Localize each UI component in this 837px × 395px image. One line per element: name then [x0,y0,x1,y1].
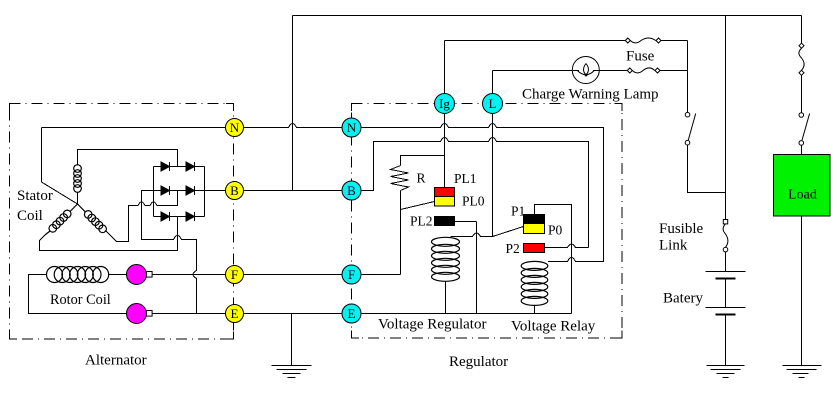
wire ignition switch column [687,41,689,113]
terminal L regulator [483,94,503,114]
svg-text:Coil: Coil [17,208,43,224]
terminal E regulator [342,304,361,323]
terminal E alternator [226,305,244,323]
fuse F1 [625,38,661,43]
wire Ig drop to PL1 [444,113,446,188]
svg-text:Stator: Stator [17,188,53,204]
svg-text:Batery: Batery [663,291,703,307]
wire rotor coil left return [29,275,127,314]
ground below load [783,366,822,378]
rotor coil winding [47,267,109,283]
wire L drop to relay armature [492,113,494,237]
svg-text:L: L [489,96,497,111]
wire VR coil top to relay contact arm with hop [451,227,524,237]
svg-text:Voltage Relay: Voltage Relay [511,319,596,335]
terminal N regulator [342,118,361,137]
svg-text:Rotor Coil: Rotor Coil [50,292,111,308]
wire battery feed riser [725,16,727,220]
wire switch to battery feed [688,145,726,193]
svg-text:R: R [417,171,426,186]
svg-text:F: F [231,267,238,282]
svg-text:P2: P2 [506,241,520,256]
wire stator phase B to bridge middle row with hops [106,191,178,242]
terminal B regulator [342,181,361,200]
diode D3 [161,186,170,195]
diode D5 [161,212,170,221]
contact P0 [524,224,545,234]
contact PL1 [435,188,455,197]
contact P1 [524,215,545,224]
svg-text:Link: Link [659,238,688,254]
wire relay coil bottom lead [534,306,536,314]
svg-text:PL2: PL2 [410,214,433,229]
wire load branch top [801,16,803,44]
terminal N alternator [226,119,244,137]
svg-text:P1: P1 [511,204,525,219]
wire VR coil bottom lead [445,281,447,314]
wire load switch to load box [801,146,803,155]
terminal F alternator [226,266,244,284]
regulator dash-dot enclosure [352,104,623,339]
wire fuse2 to switch column [660,70,688,72]
stator coil phase B winding (lower-right) [78,204,107,233]
svg-text:E: E [348,306,356,321]
brush F (slip ring) [127,265,153,285]
svg-text:Ig: Ig [439,96,450,111]
load branch fuse F3 [799,43,804,75]
wire P2 to B feed drop with hop [545,244,589,248]
wire regulator contact arm diagonal [401,202,435,210]
diode D4 [186,186,195,195]
wire F net from brush to armature [152,274,401,276]
svg-text:Fuse: Fuse [626,49,655,65]
wire B net from bridge to regulator feed [205,138,589,248]
wire L riser to lamp [493,71,573,95]
fuse F2 [627,68,660,73]
svg-text:Voltage Regulator: Voltage Regulator [378,317,486,333]
svg-text:Regulator: Regulator [449,354,508,370]
svg-text:F: F [348,267,355,282]
brush E (slip ring) [127,304,153,324]
load switch SW2 [799,113,810,146]
wire N net with hops [42,124,604,262]
alternator dash-dot enclosure [10,104,234,340]
diode D2 [186,162,195,171]
wire Ig riser to fuse [445,41,626,95]
svg-text:Alternator: Alternator [85,353,147,369]
wire P1 to E bus [535,205,572,314]
wire regulator armature to F [400,191,402,275]
wire negative bus from bridge to E wire with hops [142,191,197,314]
stator coil phase C winding (lower-left) [46,204,78,235]
wire stator phase A to bridge top row [78,150,178,167]
contact P2 [524,244,545,253]
contact PL2 [435,217,455,226]
svg-text:Load: Load [788,188,817,203]
wire stator phase C to bridge bottom row [40,217,178,251]
wire load branch fuse to switch [801,76,803,113]
load box [774,155,831,217]
wire top bus from left riser to load branch [293,15,802,17]
diode D1 [161,162,170,171]
wire PL2 to E bus [455,222,477,314]
wire E net bus [152,313,572,315]
terminal B alternator [226,182,244,200]
svg-text:E: E [231,306,239,321]
svg-text:B: B [347,183,356,198]
svg-text:N: N [230,120,240,135]
wire E ground stub [291,314,293,366]
ground below alternator [272,366,312,378]
charge warning lamp [572,57,599,84]
wire rotor coil to F brush [109,274,127,276]
diode D6 [186,212,195,221]
contact PL0 [435,197,455,207]
svg-text:Charge Warning Lamp: Charge Warning Lamp [522,87,659,103]
svg-text:P0: P0 [548,223,563,238]
battery [706,252,746,365]
wire R branch from Ig drop [401,156,445,166]
node star point N connection [42,128,78,205]
wire fuse1 to switch column [661,40,688,42]
svg-text:Fusible: Fusible [659,221,704,237]
ground below battery [707,366,745,378]
svg-text:PL0: PL0 [462,194,485,209]
ignition switch SW1 [685,112,696,145]
voltage relay coil [521,261,548,305]
voltage regulator coil [432,237,460,281]
terminal F regulator [342,265,361,284]
resistor R zigzag [391,166,409,191]
wire lamp to fuse2 [600,70,628,72]
svg-text:PL1: PL1 [454,171,477,186]
wire left riser from top bus down to B wire [292,16,294,191]
svg-text:N: N [347,120,357,135]
rectifier bridge frame [154,167,205,217]
wire load to ground [801,216,803,365]
terminal Ig regulator [435,94,455,114]
svg-text:B: B [230,183,239,198]
fusible link [723,220,728,252]
stator coil phase A winding [74,165,82,204]
